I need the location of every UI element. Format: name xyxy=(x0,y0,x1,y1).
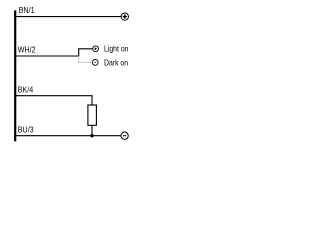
svg-text:Light on: Light on xyxy=(104,44,128,54)
svg-text:BN/1: BN/1 xyxy=(19,6,35,16)
svg-text:WH/2: WH/2 xyxy=(18,45,36,55)
svg-text:BU/3: BU/3 xyxy=(18,125,34,135)
svg-text:BK/4: BK/4 xyxy=(18,85,34,95)
svg-text:Dark on: Dark on xyxy=(104,58,128,68)
